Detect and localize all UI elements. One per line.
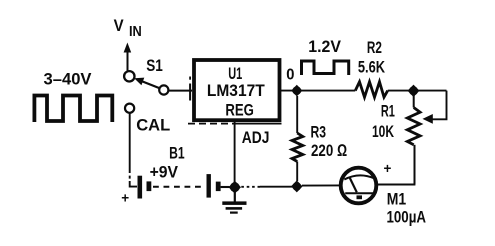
node CAL contact	[125, 104, 134, 113]
svg-text:1.2V: 1.2V	[308, 37, 341, 56]
svg-text:CAL: CAL	[136, 116, 170, 135]
svg-text:LM317T: LM317T	[207, 81, 265, 100]
svg-text:0: 0	[286, 66, 294, 83]
label 3-40V	[44, 70, 93, 89]
svg-text:220 Ω: 220 Ω	[311, 141, 347, 160]
junction output node	[291, 85, 302, 97]
battery B1	[121, 144, 229, 206]
svg-text:R3: R3	[311, 123, 327, 142]
junction R3 bottom node	[291, 180, 303, 192]
svg-text:R2: R2	[367, 38, 382, 57]
label CAL	[136, 116, 170, 135]
junction ground node	[229, 181, 241, 194]
IC U1 LM317T regulator box	[188, 60, 282, 124]
svg-text:+9V: +9V	[150, 163, 179, 182]
svg-text:100µA: 100µA	[387, 208, 427, 227]
pin label I (input)	[189, 77, 191, 101]
node V_IN label	[114, 16, 142, 40]
wire pot wiper loop	[431, 91, 447, 120]
wire ADJ pin down to ground node	[234, 122, 236, 182]
1.2V waveform label	[302, 37, 349, 75]
svg-text:V: V	[114, 16, 125, 35]
wire R2 to wiper corner	[388, 90, 447, 92]
wire CAL down to battery	[130, 113, 137, 187]
junction R1 top node	[408, 85, 420, 97]
resistor R2	[355, 38, 387, 97]
svg-text:REG: REG	[225, 100, 254, 119]
svg-text:5.6K: 5.6K	[358, 58, 386, 77]
pin label O (output)	[286, 66, 294, 83]
switch S1 pole contact	[124, 71, 134, 81]
svg-text:+: +	[384, 161, 392, 176]
svg-text:IN: IN	[129, 23, 142, 40]
meter M1	[341, 161, 426, 226]
svg-text:B1: B1	[169, 144, 185, 163]
svg-text:ADJ: ADJ	[242, 128, 270, 147]
svg-text:S1: S1	[146, 56, 163, 75]
resistor R3	[292, 96, 347, 181]
label S1	[146, 56, 163, 75]
wire U1 output rail	[281, 90, 355, 92]
wire bottom rail dashed then solid to R3 node	[241, 186, 292, 188]
wire arrow up to V_IN	[124, 43, 132, 71]
pin label ADJ	[242, 128, 270, 147]
wire R3 node to meter	[302, 184, 341, 186]
switch S1 lever with arrow and throw contact	[134, 78, 168, 95]
svg-text:M1: M1	[387, 190, 406, 209]
potentiometer R1	[372, 91, 420, 185]
wire meter to R1 bottom	[376, 184, 415, 186]
wiper arrow of R1	[423, 114, 433, 124]
wire switch to U1 input	[169, 90, 192, 92]
svg-text:3–40V: 3–40V	[44, 70, 93, 89]
input square wave symbol	[34, 96, 112, 123]
svg-text:+: +	[121, 191, 129, 206]
svg-text:R1: R1	[381, 102, 395, 121]
svg-text:10K: 10K	[372, 122, 395, 141]
ground	[222, 187, 246, 214]
